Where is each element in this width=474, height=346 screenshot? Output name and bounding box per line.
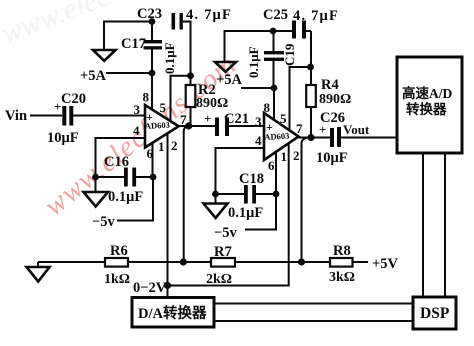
svg-text:4: 4	[255, 133, 262, 148]
svg-text:C17: C17	[121, 36, 146, 52]
node: C16 left	[92, 174, 99, 181]
svg-text:C25: C25	[263, 7, 288, 23]
wire: ground to R6	[38, 261, 105, 263]
node: +5A junction	[149, 70, 156, 77]
svg-text:3: 3	[255, 114, 262, 129]
svg-text:1kΩ: 1kΩ	[104, 272, 130, 287]
svg-text:7: 7	[296, 121, 303, 136]
wire: R7 to R8	[235, 261, 330, 263]
node: U1 output	[185, 122, 192, 129]
svg-text:C23: C23	[137, 6, 162, 22]
wire: R6 to R7	[128, 261, 211, 263]
ground (top-left)	[93, 50, 116, 61]
wire: U2 pin 1 drop to 0-2V line	[168, 144, 289, 286]
svg-text:R8: R8	[333, 243, 351, 259]
capacitor C18	[216, 171, 277, 221]
svg-text:1: 1	[281, 149, 288, 164]
svg-text:3: 3	[134, 102, 141, 117]
svg-text:2kΩ: 2kΩ	[206, 272, 232, 287]
svg-text:C21: C21	[224, 111, 249, 127]
svg-text:AD603: AD603	[145, 120, 171, 131]
bus wire D/A to DSP (upper)	[214, 303, 413, 305]
svg-text:转换器: 转换器	[406, 101, 447, 117]
wire: pin 2 feedback drop	[184, 126, 187, 262]
node: C18 right	[273, 191, 280, 198]
box DSP	[413, 297, 456, 329]
svg-text:0.1μF: 0.1μF	[228, 205, 263, 221]
svg-text:C26: C26	[320, 110, 345, 126]
capacitor C16	[96, 154, 154, 205]
capacitor C17	[121, 36, 177, 74]
svg-text:+: +	[204, 111, 211, 126]
wire: C25 right down to pin5 node	[310, 31, 312, 67]
svg-text:8: 8	[143, 90, 150, 105]
svg-text:AD603: AD603	[264, 131, 290, 142]
capacitor C25	[263, 7, 339, 39]
wire: C26 to A/D box	[341, 137, 397, 139]
svg-text:高速A/D: 高速A/D	[402, 85, 452, 101]
wire: pin 4 to C16 left	[96, 138, 146, 177]
wire: C23 right to R2 top node	[183, 22, 191, 76]
wire: U2 pin 6 down	[275, 152, 277, 195]
svg-text:10μF: 10μF	[47, 130, 79, 146]
wire: Vin to C20	[30, 115, 62, 117]
box D/A converter	[132, 298, 214, 328]
node: C18 left	[212, 191, 219, 198]
wire: U1 output	[179, 125, 215, 127]
node: U2 pin8 supply	[271, 85, 278, 92]
svg-text:C20: C20	[61, 91, 86, 107]
node: C25 left junction	[270, 28, 277, 35]
svg-text:Vout: Vout	[343, 122, 370, 137]
bus wire A/D to DSP (left)	[422, 153, 424, 297]
svg-text:−5v: −5v	[92, 214, 116, 230]
wire: U2 pin 5 riser to R4 node	[290, 67, 311, 131]
svg-text:6: 6	[268, 158, 275, 173]
node: feedback to R6/R7	[180, 258, 187, 265]
node: U2 output	[307, 134, 314, 141]
wire: +5A to pin8 column	[106, 72, 152, 74]
wire: pin 8 drop into U2	[273, 88, 275, 121]
ground (under C16 left)	[95, 177, 97, 192]
svg-text:10μF: 10μF	[316, 150, 348, 166]
capacitor C20	[47, 91, 86, 146]
svg-text:5: 5	[280, 111, 287, 126]
resistor R7	[206, 244, 235, 287]
svg-text:+5V: +5V	[372, 256, 399, 272]
svg-text:2: 2	[171, 138, 178, 153]
svg-text:+5A: +5A	[216, 72, 243, 88]
svg-text:D/A转换器: D/A转换器	[138, 304, 207, 322]
svg-text:C18: C18	[239, 171, 264, 187]
svg-text:+5A: +5A	[80, 68, 107, 84]
svg-text:3kΩ: 3kΩ	[329, 270, 355, 285]
svg-text:4. 7μF: 4. 7μF	[293, 8, 339, 24]
svg-text:890Ω: 890Ω	[196, 96, 228, 111]
capacitor C21	[204, 111, 249, 136]
wire: U2 output	[299, 137, 330, 139]
ground (under C18 left)	[215, 194, 217, 204]
wire: C18 right down to -5v	[245, 194, 276, 230]
svg-text:890Ω: 890Ω	[319, 92, 351, 107]
svg-text:4. 7μF: 4. 7μF	[186, 7, 232, 23]
svg-text:C19: C19	[282, 43, 297, 66]
svg-text:−5v: −5v	[214, 225, 238, 241]
wire: C21 to U2 pin 3	[229, 125, 264, 127]
node: R2 top	[187, 72, 194, 79]
op-amp U1 AD603	[133, 90, 187, 162]
wire: top-left rail to C23	[104, 22, 152, 51]
svg-text:0.1μF: 0.1μF	[108, 189, 143, 205]
wire: R8 to +5V	[353, 261, 369, 263]
wire: vertical +5A / C17 / pin8 column	[151, 22, 153, 41]
wire: C16 right down to -5v	[117, 177, 153, 221]
svg-text:R7: R7	[214, 244, 232, 260]
svg-text:DSP: DSP	[420, 305, 450, 322]
svg-text:5: 5	[160, 100, 167, 115]
wire: C20 to pin 3	[73, 115, 145, 117]
svg-text:0.1μF: 0.1μF	[162, 42, 177, 74]
wire: U2 pin 2 feedback drop	[302, 138, 308, 263]
wire: pin 6 down	[152, 143, 154, 177]
wire: pin 5 riser to R2 node	[171, 76, 191, 122]
wire: U2 pin 4 to C18 left	[216, 148, 265, 194]
svg-text:R4: R4	[321, 77, 339, 93]
svg-text:www.elec: www.elec	[0, 0, 115, 51]
svg-text:C16: C16	[104, 154, 129, 170]
capacitor C23	[137, 6, 232, 30]
ground (bottom-left)	[37, 262, 39, 267]
op-amp U2 AD603	[255, 100, 303, 173]
node: feedback to R7/R8	[298, 258, 305, 265]
svg-text:1: 1	[158, 139, 165, 154]
svg-text:4: 4	[133, 123, 140, 138]
svg-text:8: 8	[264, 100, 271, 115]
resistor R8	[329, 243, 355, 285]
svg-text:0.1μF: 0.1μF	[246, 46, 261, 78]
bus wire A/D to DSP (right)	[444, 153, 446, 297]
wire: top-right rail elbow	[225, 31, 274, 62]
svg-text:2: 2	[293, 148, 300, 163]
resistor R6	[104, 243, 130, 287]
bus wire D/A to DSP (lower)	[214, 320, 413, 322]
svg-text:Vin: Vin	[5, 108, 27, 124]
capacitor C19	[246, 31, 297, 88]
capacitor C26	[316, 110, 348, 166]
node: R4 top	[307, 64, 314, 71]
node: 0-2V tap	[164, 282, 171, 289]
resistor R2	[186, 76, 229, 126]
resistor R4	[306, 67, 351, 138]
node: C16 right	[150, 174, 157, 181]
wire: +5A to C19 bottom node	[241, 87, 274, 89]
wire: pin 1 long drop to D/A (0-2V net)	[167, 134, 169, 298]
ground (top-right)	[215, 62, 236, 72]
node: C23 left junction	[149, 18, 156, 25]
svg-text:0−2V: 0−2V	[133, 280, 167, 296]
svg-text:R6: R6	[110, 243, 128, 259]
box A/D converter	[397, 57, 462, 153]
